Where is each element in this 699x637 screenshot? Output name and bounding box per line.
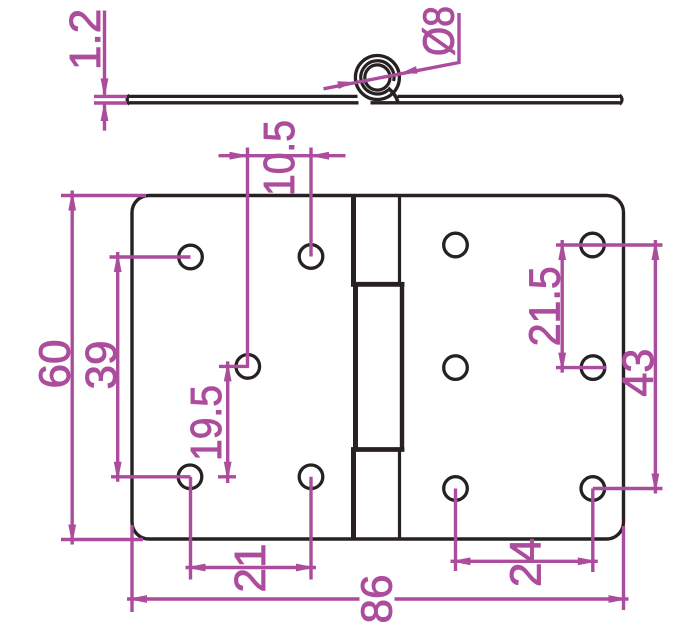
hole left-leaf top-right <box>299 245 323 269</box>
hole right-leaf middle-left <box>444 356 468 380</box>
dimension 10.5 left extension line down to middle hole <box>246 148 249 367</box>
svg-text:Ø8: Ø8 <box>415 6 464 56</box>
dimension 39 top extension line <box>110 255 191 258</box>
dimension 21.5/43 top extension line <box>556 243 663 246</box>
dimension 39 top arrow <box>114 252 122 272</box>
dimension 43 top arrow <box>652 240 660 260</box>
svg-text:43: 43 <box>614 349 663 397</box>
dimension Ø8 left arrow <box>337 81 354 89</box>
dimension 19.5 top arrow <box>224 361 232 381</box>
dimension 21.5 middle extension line <box>556 366 606 369</box>
dimension 21 right arrow <box>296 564 316 572</box>
dimension 60 dimension line <box>70 191 73 545</box>
dimension 21.5 dimension line <box>561 240 564 373</box>
svg-text:19.5: 19.5 <box>182 385 231 461</box>
dimension 43 dimension line <box>654 240 657 494</box>
dimension 10.5 right arrow <box>309 152 329 160</box>
knuckle inner coil circle <box>365 65 390 90</box>
svg-text:60: 60 <box>31 340 80 389</box>
knuckle joint right line upper <box>398 196 401 285</box>
knuckle joint left line lower <box>351 450 356 540</box>
hole left-leaf middle <box>236 355 260 379</box>
side view bar left end cap <box>127 95 129 104</box>
hole right-leaf top-right <box>581 233 605 257</box>
dimension 19.5 top extension tick <box>219 365 249 368</box>
hole right-leaf middle-right <box>581 356 605 380</box>
dimension 1.2 extension ticks <box>94 11 127 131</box>
dimension 43 bottom arrow <box>652 474 660 494</box>
dimension 24 left extension line <box>454 489 457 572</box>
side view leaf bar top line <box>127 95 622 104</box>
hole right-leaf top-left <box>444 233 468 257</box>
plan view plate outline <box>132 196 624 540</box>
svg-text:24: 24 <box>502 538 551 587</box>
dimension 21 left extension line <box>189 477 192 580</box>
hole left-leaf top-left <box>179 245 203 269</box>
dimension 60 bottom arrow <box>68 525 76 545</box>
dimension 24 dimension line <box>451 560 598 563</box>
dimension 21 dimension line <box>186 566 317 569</box>
dimension 10.5 right extension line down to top hole <box>309 148 312 257</box>
knuckle seam lower <box>351 447 404 452</box>
knuckle joint right line middle <box>400 282 404 452</box>
svg-text:21: 21 <box>226 544 275 593</box>
knuckle outer circle (side view) <box>355 56 399 100</box>
screw holes <box>178 233 605 500</box>
side view leaf bar bottom line <box>130 101 620 104</box>
knuckle seam upper <box>351 282 404 287</box>
dimension 21 left arrow <box>186 564 206 572</box>
svg-text:1.2: 1.2 <box>61 9 110 70</box>
dimension 39/19.5 bottom extension line <box>111 475 236 478</box>
dimension 10.5 left arrow <box>230 152 250 160</box>
dimension 21 right extension line <box>309 477 312 580</box>
dimension 19.5 bottom arrow <box>224 462 232 482</box>
knuckle joint left line upper <box>351 196 404 540</box>
dimension 86 left extension line <box>130 525 133 612</box>
hole left-leaf bottom-left <box>178 465 202 489</box>
knuckle coil tail <box>388 88 398 102</box>
dimension 24 right arrow <box>578 557 598 565</box>
dimension 1.2 upper arrow <box>101 78 109 98</box>
hole right-leaf bottom-left <box>444 477 468 501</box>
dimension 60 top extension line <box>61 194 146 197</box>
knuckle middle coil circle with gap <box>361 61 394 94</box>
dimension 39 bottom arrow <box>114 462 122 482</box>
dimension Ø8 leader diagonal <box>324 13 460 89</box>
svg-text:39: 39 <box>77 341 126 390</box>
dimension 19.5 dimension line <box>226 361 229 483</box>
dimension 10.5 dimension line <box>219 154 346 157</box>
dimension 21.5 top arrow <box>558 240 566 260</box>
svg-text:10.5: 10.5 <box>255 120 304 196</box>
dimension 39 dimension line <box>116 252 119 482</box>
dimension 86 right arrow <box>609 595 629 603</box>
dimension Ø8 right arrow <box>401 66 418 74</box>
dimension 24 right extension line <box>591 489 594 573</box>
side view bar right end cap <box>620 95 623 104</box>
dimension 60 bottom extension line <box>61 538 143 541</box>
dimension 24 left arrow <box>451 557 471 565</box>
hole left-leaf bottom-right <box>299 465 323 489</box>
hole right-leaf bottom-right <box>581 477 605 501</box>
dimension 1.2 lower arrow <box>101 101 109 121</box>
dimension 86 dimension line <box>127 597 629 600</box>
dimension 43 bottom extension line <box>593 487 663 490</box>
knuckle joint right line lower <box>398 450 401 540</box>
svg-text:21.5: 21.5 <box>521 266 570 346</box>
dimension 86 right extension line <box>622 526 625 610</box>
svg-text:86: 86 <box>353 575 402 624</box>
dimension 21.5 bottom arrow <box>558 353 566 373</box>
knuckle joint left line middle <box>353 282 358 452</box>
dimension 86 left arrow <box>127 595 147 603</box>
dimension 60 top arrow <box>68 191 76 211</box>
dimension 1.2 dimension line <box>103 11 106 131</box>
